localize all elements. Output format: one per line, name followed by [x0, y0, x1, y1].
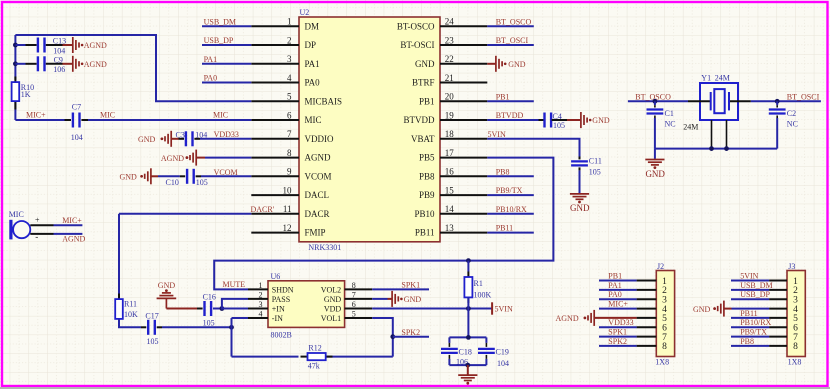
svg-text:SPK1: SPK1: [608, 328, 627, 337]
wire C18/C19 top: [449, 336, 486, 338]
resistor R1: [464, 261, 491, 303]
J3 pin 6: [731, 318, 798, 333]
svg-text:PB11: PB11: [740, 309, 758, 318]
svg-text:105: 105: [147, 337, 159, 346]
svg-text:5: 5: [352, 310, 356, 319]
svg-text:6: 6: [287, 111, 292, 121]
svg-text:8: 8: [352, 281, 356, 290]
connector J3 body (1X8): [787, 262, 805, 366]
svg-text:MIC: MIC: [213, 111, 228, 120]
svg-text:7: 7: [287, 129, 292, 139]
J3 pin 3: [731, 290, 798, 305]
U2 pin 21 (BTRF): [412, 73, 487, 88]
U2 pin 23 (BT-OSCI): [400, 35, 487, 50]
svg-text:AGND: AGND: [305, 153, 331, 163]
ground GND (crystal): [645, 160, 665, 179]
wire VDD to 5VIN: [372, 308, 492, 310]
J2 pin 1: [599, 272, 667, 287]
wire crystal bottom: [655, 148, 777, 150]
svg-text:GND: GND: [138, 135, 156, 144]
J3 pin 7: [731, 328, 798, 343]
svg-text:+: +: [35, 215, 40, 224]
resistor R12: [301, 344, 333, 371]
U2 pin 11 (DACR): [251, 204, 329, 219]
svg-text:USB_DP: USB_DP: [740, 290, 770, 299]
wire left vertical rail: [14, 35, 16, 120]
wire PB5/MUTE net (pin 17 to U6): [214, 158, 553, 290]
microphone MIC: [9, 210, 54, 242]
wire net SPK1: [372, 281, 429, 290]
svg-text:C2: C2: [787, 109, 796, 118]
node R1 top junction: [466, 258, 471, 263]
U2 pin 24 (BT-OSCO): [397, 17, 487, 32]
svg-text:PB9/TX: PB9/TX: [496, 186, 523, 195]
J2 pin 3: [599, 290, 667, 305]
wire MIC net: [88, 111, 251, 120]
capacitor C9: [15, 55, 65, 74]
wire crystal net BT_OSCO: [628, 92, 688, 101]
svg-text:VDDIO: VDDIO: [305, 134, 334, 144]
wire net PA0: [202, 74, 251, 83]
capacitor C11: [571, 156, 602, 176]
svg-text:R12: R12: [308, 344, 321, 353]
svg-text:PB1: PB1: [496, 92, 510, 101]
svg-text:-: -: [35, 231, 38, 241]
svg-text:-IN: -IN: [272, 314, 283, 323]
svg-text:PA1: PA1: [204, 55, 218, 64]
svg-text:USB_DM: USB_DM: [204, 17, 236, 26]
svg-text:GND: GND: [120, 173, 138, 182]
svg-text:1: 1: [259, 281, 263, 290]
svg-text:GND: GND: [592, 116, 610, 125]
svg-text:GND: GND: [158, 281, 176, 290]
U2 pin 19 (BTVDD): [404, 111, 488, 126]
svg-text:1: 1: [287, 17, 292, 27]
svg-text:GND: GND: [324, 295, 342, 304]
U2 pin 8 (AGND): [251, 148, 331, 163]
svg-text:NRK3301: NRK3301: [308, 243, 341, 252]
svg-text:105: 105: [553, 121, 565, 130]
svg-text:PB9/TX: PB9/TX: [740, 328, 767, 337]
resistor R10: [12, 77, 35, 110]
svg-text:GND: GND: [415, 59, 435, 69]
wire net PB9/TX: [487, 186, 534, 195]
U2 pin 7 (VDDIO): [251, 129, 334, 144]
svg-text:Y1: Y1: [701, 74, 711, 83]
svg-text:BT_OSCO: BT_OSCO: [496, 17, 532, 26]
wire MIC+ row: [15, 111, 64, 120]
wire feedback bottom: [232, 356, 393, 358]
crystal Y1 24M: [688, 74, 751, 120]
svg-text:4: 4: [259, 310, 263, 319]
wire net AGND (mic): [54, 234, 86, 244]
ground GND (below C11): [570, 194, 590, 213]
wire net PB8: [487, 167, 534, 176]
svg-text:C9: C9: [54, 55, 63, 64]
svg-text:SPK1: SPK1: [401, 281, 420, 290]
node SPK2 junction: [390, 334, 395, 339]
svg-text:MIC: MIC: [305, 115, 322, 125]
svg-text:FMIP: FMIP: [305, 228, 326, 238]
svg-text:13: 13: [445, 223, 455, 233]
capacitor C18: [441, 337, 472, 366]
svg-text:MIC+: MIC+: [26, 111, 46, 120]
ground GND (C18/C19): [458, 375, 477, 380]
svg-text:C16: C16: [203, 293, 216, 302]
svg-text:PB8: PB8: [496, 167, 510, 176]
node C16/PASS junction: [220, 306, 225, 311]
wire to crystal ground: [654, 149, 656, 159]
wire net PB1 (pin 20): [487, 92, 534, 101]
svg-text:22: 22: [445, 54, 454, 64]
svg-text:24M: 24M: [683, 122, 698, 131]
connector J2 body (1X8): [655, 262, 674, 366]
U2 pin 16 (PB8): [419, 167, 487, 182]
svg-text:23: 23: [445, 35, 455, 45]
power port AGND (pin 8): [161, 150, 205, 166]
J2 pin 7: [599, 328, 667, 343]
node -IN junction: [229, 325, 234, 330]
wire GND to C10: [158, 175, 180, 177]
wire net USB_DP: [202, 36, 251, 45]
svg-text:VDD: VDD: [324, 305, 342, 314]
power port GND (C10): [120, 168, 159, 184]
svg-text:U6: U6: [271, 272, 281, 281]
svg-text:15: 15: [445, 186, 455, 196]
node crystal pin b: [724, 146, 729, 151]
svg-text:GND: GND: [508, 60, 526, 69]
power port GND (J3 pin4): [693, 301, 769, 317]
svg-text:J3: J3: [788, 262, 795, 271]
svg-text:100K: 100K: [474, 290, 492, 299]
svg-text:11: 11: [283, 204, 292, 214]
U2 pin 17 (PB5): [419, 148, 487, 163]
capacitor C16: [197, 293, 222, 328]
power port GND (C3): [138, 131, 179, 147]
svg-text:24: 24: [445, 17, 455, 27]
svg-text:PB11: PB11: [496, 224, 514, 233]
svg-text:DACR: DACR: [305, 209, 330, 219]
svg-text:20: 20: [445, 92, 455, 102]
wire net PA1: [202, 55, 251, 64]
capacitor C1: [647, 101, 676, 148]
svg-text:106: 106: [53, 65, 65, 74]
U2 pin 15 (PB9): [419, 186, 487, 201]
wire C11 to ground: [579, 170, 581, 193]
svg-text:AGND: AGND: [161, 154, 184, 163]
svg-text:PB8: PB8: [740, 337, 754, 346]
resistor R11: [115, 294, 138, 326]
svg-text:GND: GND: [645, 169, 665, 179]
U2 pin 20 (PB1): [419, 92, 487, 107]
svg-text:C18: C18: [459, 347, 472, 356]
capacitor C2: [769, 101, 798, 148]
svg-text:105: 105: [196, 178, 208, 187]
IC U2 NRK3301: [299, 8, 440, 252]
svg-text:104: 104: [71, 133, 83, 142]
svg-text:VDD33: VDD33: [214, 130, 239, 139]
svg-text:NC: NC: [787, 120, 798, 129]
svg-text:PB1: PB1: [608, 272, 622, 281]
U2 pin 5 (MICBAIS): [251, 92, 342, 107]
svg-text:1K: 1K: [21, 90, 31, 99]
svg-text:19: 19: [445, 111, 455, 121]
wire crystal case pins: [712, 120, 727, 149]
svg-text:GND: GND: [570, 203, 590, 213]
wire net DACR': [119, 205, 275, 299]
svg-text:105: 105: [589, 167, 601, 176]
svg-text:MIC: MIC: [9, 210, 24, 219]
ground GND (C16): [157, 281, 197, 308]
node C18 top junction: [466, 335, 471, 340]
svg-text:PA1: PA1: [305, 59, 320, 69]
svg-text:10: 10: [283, 186, 293, 196]
svg-text:AGND: AGND: [62, 234, 85, 243]
J2 pin 5: [637, 314, 668, 324]
svg-text:8: 8: [793, 342, 798, 352]
node C1 top: [653, 99, 658, 104]
U2 pin 12 (FMIP): [251, 223, 325, 238]
svg-text:C7: C7: [72, 103, 81, 112]
svg-text:AGND: AGND: [556, 314, 579, 323]
U2 pin 14 (PB10): [414, 204, 487, 219]
svg-text:8: 8: [662, 342, 667, 352]
power port AGND (J2 pin5): [556, 310, 637, 326]
wire net BT_OSCO (pin 24): [487, 17, 534, 26]
svg-text:DACL: DACL: [305, 190, 330, 200]
svg-text:AGND: AGND: [84, 41, 107, 50]
amplifier U6 8002B: [268, 272, 345, 340]
J3 pin 4: [769, 305, 798, 315]
U6 pin 3 (+IN): [248, 300, 285, 313]
svg-text:DM: DM: [305, 21, 320, 31]
U6 pin 1 (SHDN): [248, 281, 294, 294]
wire net USB_DM: [202, 17, 251, 26]
svg-text:17: 17: [445, 148, 455, 158]
J3 pin 2: [731, 281, 798, 296]
svg-text:BTVDD: BTVDD: [404, 115, 435, 125]
svg-text:4: 4: [287, 73, 292, 83]
svg-text:C4: C4: [553, 112, 562, 121]
svg-text:USB_DP: USB_DP: [204, 36, 234, 45]
svg-text:VCOM: VCOM: [305, 171, 332, 181]
svg-text:PB10/RX: PB10/RX: [740, 318, 771, 327]
wire net MIC+: [54, 216, 83, 225]
svg-text:C10: C10: [166, 178, 179, 187]
power port GND (C4): [567, 112, 610, 128]
svg-text:BT_OSCI: BT_OSCI: [496, 36, 529, 45]
svg-text:SHDN: SHDN: [272, 285, 294, 294]
svg-text:R11: R11: [124, 300, 137, 309]
svg-text:AGND: AGND: [84, 60, 107, 69]
svg-text:VOL1: VOL1: [321, 314, 341, 323]
wire net VDD33: [200, 130, 251, 139]
wire C17 to -IN node: [162, 326, 232, 328]
svg-text:VDD33: VDD33: [608, 318, 633, 327]
svg-text:SPK2: SPK2: [608, 337, 627, 346]
svg-text:8: 8: [287, 148, 292, 158]
svg-text:NC: NC: [665, 120, 676, 129]
wire net 5VIN (pin 18): [487, 130, 579, 157]
wire VOL1 to SPK2/feedback: [372, 318, 393, 357]
svg-text:USB_DM: USB_DM: [740, 281, 772, 290]
svg-text:PA0: PA0: [608, 290, 622, 299]
svg-text:MIC: MIC: [100, 111, 115, 120]
svg-text:PA0: PA0: [305, 78, 321, 88]
svg-text:16: 16: [445, 167, 455, 177]
U6 pin 4 (-IN): [248, 310, 283, 323]
svg-text:+IN: +IN: [272, 305, 285, 314]
U2 pin 6 (MIC): [251, 111, 321, 126]
svg-text:PB9: PB9: [419, 190, 435, 200]
svg-text:5VIN: 5VIN: [488, 130, 506, 139]
svg-text:1X8: 1X8: [655, 357, 669, 366]
J2 pin 4: [599, 300, 667, 315]
J3 pin 8: [731, 337, 798, 352]
wire C18/C19 bottom: [449, 364, 486, 366]
svg-text:BT-OSCI: BT-OSCI: [400, 40, 434, 50]
svg-text:1X8: 1X8: [788, 357, 802, 366]
J2 pin 2: [599, 281, 667, 296]
svg-text:9: 9: [287, 167, 292, 177]
svg-text:104: 104: [53, 47, 65, 56]
wire PASS to +IN: [222, 299, 248, 309]
U6 pin 6 (VDD): [324, 300, 372, 313]
U6 pin 2 (PASS): [248, 291, 290, 304]
wire R11 to C17: [119, 319, 141, 327]
wire -IN vertical: [231, 318, 233, 357]
capacitor C19: [478, 337, 509, 368]
U2 pin 3 (PA1): [251, 54, 319, 69]
U2 pin 10 (DACL): [251, 186, 329, 201]
svg-text:MUTE: MUTE: [223, 280, 246, 289]
svg-text:J2: J2: [657, 262, 664, 271]
capacitor C7: [65, 103, 89, 142]
power port AGND (C9): [63, 56, 108, 72]
U6 pin 7 (GND): [324, 291, 372, 304]
svg-text:GND: GND: [693, 305, 711, 314]
svg-text:BT_OSCI: BT_OSCI: [787, 92, 820, 101]
svg-text:DACR': DACR': [251, 205, 275, 214]
U2 pin 4 (PA0): [251, 73, 320, 88]
svg-text:24M: 24M: [715, 74, 730, 83]
node C2 top: [775, 99, 780, 104]
svg-text:14: 14: [445, 204, 455, 214]
svg-text:3: 3: [259, 300, 263, 309]
capacitor C17: [141, 312, 162, 347]
svg-text:MIC+: MIC+: [608, 300, 628, 309]
U2 pin 2 (DP): [251, 35, 316, 50]
svg-text:PB10/RX: PB10/RX: [496, 205, 527, 214]
svg-text:6: 6: [352, 300, 356, 309]
power port 5VIN: [492, 302, 513, 314]
svg-text:C11: C11: [589, 156, 602, 165]
svg-text:47k: 47k: [308, 361, 320, 370]
wire net PB10/RX: [487, 205, 534, 214]
svg-text:5VIN: 5VIN: [495, 305, 513, 314]
svg-text:10K: 10K: [124, 310, 138, 319]
power port GND (U6 pin7): [372, 291, 421, 307]
svg-text:DP: DP: [305, 40, 317, 50]
svg-text:5VIN: 5VIN: [740, 272, 758, 281]
svg-text:105: 105: [203, 319, 215, 328]
wire net PB11: [487, 224, 534, 233]
capacitor C13: [15, 36, 66, 55]
svg-text:PB10: PB10: [414, 209, 435, 219]
node ground junction: [465, 363, 470, 368]
svg-text:2: 2: [287, 35, 292, 45]
wire R1 bottom: [467, 297, 469, 337]
U2 pin 1 (DM): [251, 17, 319, 32]
svg-text:PA0: PA0: [204, 74, 218, 83]
svg-text:8002B: 8002B: [271, 331, 292, 340]
svg-text:PB5: PB5: [419, 153, 435, 163]
svg-text:C19: C19: [496, 347, 509, 356]
svg-text:VBAT: VBAT: [411, 134, 435, 144]
svg-text:BT-OSCO: BT-OSCO: [397, 21, 435, 31]
power port GND (pin 22): [487, 56, 525, 72]
U6 pin 8 (VOL2): [321, 281, 372, 294]
svg-text:C1: C1: [665, 109, 674, 118]
U2 pin 9 (VCOM): [251, 167, 331, 182]
svg-text:PB1: PB1: [419, 96, 435, 106]
node C9 junction: [13, 61, 18, 66]
svg-text:7: 7: [352, 291, 356, 300]
capacitor C10: [166, 169, 208, 187]
svg-text:BTVDD: BTVDD: [496, 111, 524, 120]
wire crystal net BT_OSCI: [751, 92, 821, 101]
J3 pin 5: [731, 309, 798, 324]
capacitor C4: [539, 112, 568, 130]
svg-text:3: 3: [287, 54, 292, 64]
svg-text:R1: R1: [474, 279, 483, 288]
power port AGND (C13): [63, 37, 108, 53]
wire MICBAIS loop (pin 5): [15, 35, 251, 101]
svg-text:VOL2: VOL2: [321, 285, 341, 294]
svg-text:GND: GND: [404, 295, 422, 304]
node VDD junction: [466, 306, 471, 311]
svg-text:BTRF: BTRF: [412, 78, 435, 88]
wire -IN to U6 pin4: [232, 317, 249, 319]
wire net BTVDD (pin 19): [487, 111, 538, 120]
svg-text:C3: C3: [176, 130, 185, 139]
svg-text:18: 18: [445, 129, 455, 139]
U2 pin 13 (PB11): [415, 223, 487, 238]
node C13 junction: [13, 43, 18, 48]
capacitor C3: [176, 130, 208, 146]
svg-text:MIC+: MIC+: [62, 216, 82, 225]
svg-text:12: 12: [283, 223, 292, 233]
svg-text:C17: C17: [145, 312, 158, 321]
svg-text:PB8: PB8: [419, 171, 435, 181]
U2 pin 22 (GND): [415, 54, 487, 69]
svg-text:MICBAIS: MICBAIS: [305, 96, 343, 106]
svg-text:PASS: PASS: [272, 295, 290, 304]
svg-text:SPK2: SPK2: [401, 328, 420, 337]
wire net SPK2: [393, 328, 429, 337]
svg-text:104: 104: [497, 359, 509, 368]
svg-text:5: 5: [287, 92, 292, 102]
J2 pin 8: [599, 337, 667, 352]
wire net BT_OSCI (pin 23): [487, 36, 534, 45]
svg-text:21: 21: [445, 73, 454, 83]
J2 pin 6: [599, 318, 667, 333]
wire net VCOM: [201, 168, 251, 177]
U6 pin 5 (VOL1): [321, 310, 372, 323]
U2 pin 18 (VBAT): [411, 129, 487, 144]
wire AGND to pin 8: [205, 157, 251, 159]
svg-text:2: 2: [259, 291, 263, 300]
